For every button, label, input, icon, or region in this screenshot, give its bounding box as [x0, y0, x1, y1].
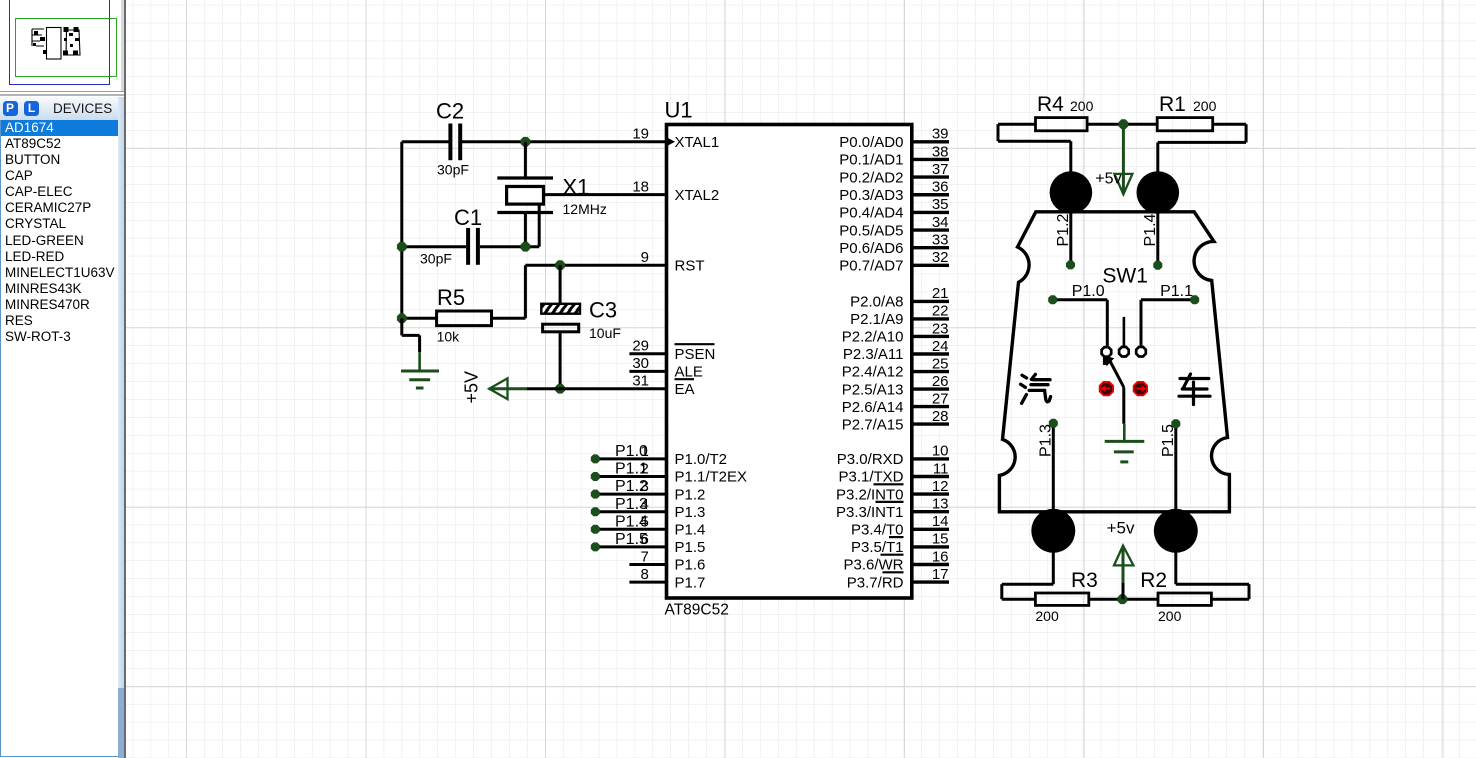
svg-text:P2.3/A11: P2.3/A11 [843, 346, 904, 363]
pin 34 P0.5/AD5 [912, 228, 949, 231]
pin 29 PSEN [629, 352, 666, 355]
preview pane [0, 0, 119, 90]
text 车 (drawn strokes) [1179, 374, 1210, 405]
motor M2 (top-right wheel) [1137, 171, 1180, 214]
svg-text:31: 31 [632, 373, 649, 390]
svg-text:XTAL2: XTAL2 [675, 187, 720, 204]
wire P1.3 [1052, 423, 1055, 584]
node: +5v top junction [1119, 119, 1129, 129]
svg-text:200: 200 [1035, 608, 1059, 624]
power terminal +5v (top, arrow down) [1122, 124, 1125, 194]
svg-text:P2.5/A13: P2.5/A13 [842, 381, 904, 398]
pin 24 P2.3/A11 [912, 352, 949, 355]
svg-text:16: 16 [932, 548, 949, 565]
EA overline [675, 378, 695, 380]
node: C2/X1/XTAL1 junction [521, 137, 531, 147]
node: RST/C3 junction [555, 260, 565, 270]
svg-text:R1: R1 [1159, 93, 1186, 116]
power terminal +5V (EA line) [527, 387, 668, 390]
wire net P1.0 [595, 457, 666, 460]
svg-text:P2.6/A14: P2.6/A14 [842, 399, 904, 416]
node P1.4 dangling end [591, 525, 600, 534]
pin 12 P3.2/INT0 [912, 492, 949, 495]
wire: RST net [525, 264, 667, 267]
svg-text:SW1: SW1 [1102, 265, 1148, 288]
pin 11 P3.1/TXD [912, 475, 949, 478]
pin 26 P2.5/A13 [912, 387, 949, 390]
pin 32 P0.7/AD7 [912, 264, 949, 267]
wire P1.1 [1141, 298, 1195, 301]
node P1.5 dangling end [591, 542, 600, 551]
svg-text:12: 12 [932, 478, 949, 495]
wire net P1.4 [595, 528, 666, 531]
svg-text:P1.0: P1.0 [1072, 283, 1105, 300]
DEVICES header [0, 97, 118, 120]
svg-text:C3: C3 [589, 298, 617, 323]
svg-text:38: 38 [932, 143, 949, 160]
svg-text:P2.1/A9: P2.1/A9 [850, 311, 903, 328]
text 汽 (drawn strokes) [1021, 374, 1051, 403]
svg-text:P0.7/AD7: P0.7/AD7 [839, 258, 903, 275]
pin 22 P2.1/A9 [912, 317, 949, 320]
svg-text:P1.4: P1.4 [675, 522, 706, 539]
svg-text:200: 200 [1193, 98, 1217, 114]
switch pole wire [1122, 387, 1125, 424]
node P1.4 [1153, 261, 1162, 270]
svg-text:P0.6/AD6: P0.6/AD6 [839, 240, 903, 257]
svg-text:P3.1/TXD: P3.1/TXD [838, 469, 903, 486]
svg-text:+5V: +5V [462, 371, 482, 404]
pin 23 P2.2/A10 [912, 335, 949, 338]
svg-text:P1.1: P1.1 [1160, 283, 1193, 300]
svg-text:13: 13 [932, 496, 949, 513]
wire: XTAL1 net horizontal [402, 140, 449, 143]
svg-text:25: 25 [932, 355, 949, 372]
svg-text:PSEN: PSEN [675, 346, 716, 363]
svg-text:R5: R5 [437, 285, 465, 310]
svg-text:P2.4/A12: P2.4/A12 [842, 364, 904, 381]
pin 36 P0.3/AD3 [912, 193, 949, 196]
svg-text:EA: EA [675, 381, 695, 398]
node: R5/ground junction [397, 313, 407, 323]
mini preview sketch [32, 28, 80, 60]
svg-text:XTAL1: XTAL1 [675, 134, 720, 151]
svg-text:12MHz: 12MHz [563, 201, 607, 217]
svg-text:R2: R2 [1140, 569, 1167, 592]
divider strip [121, 0, 124, 91]
svg-text:P1.2: P1.2 [675, 486, 706, 503]
svg-text:11: 11 [933, 460, 949, 477]
svg-text:26: 26 [932, 373, 949, 390]
pin 17 P3.7/RD [912, 580, 949, 583]
wire XTAL2 vertical (passes behind X1) [538, 195, 541, 247]
PSEN overline [675, 343, 715, 345]
svg-text:14: 14 [932, 513, 949, 530]
device list [0, 120, 119, 757]
node: EA/C3 junction [555, 384, 565, 394]
pin 38 P0.1/AD1 [912, 158, 949, 161]
svg-text:P0.1/AD1: P0.1/AD1 [839, 152, 903, 169]
svg-text:15: 15 [932, 531, 949, 548]
node P1.2 [1066, 260, 1075, 269]
wire net P1.3 [595, 510, 666, 513]
svg-text:P1.3: P1.3 [1038, 424, 1055, 457]
svg-text:P0.2/AD2: P0.2/AD2 [839, 169, 903, 186]
switch wiper [1110, 361, 1124, 387]
node: left/C1 junction [397, 242, 407, 252]
svg-text:32: 32 [932, 249, 949, 266]
svg-text:10uF: 10uF [589, 325, 621, 341]
svg-text:C1: C1 [454, 205, 482, 230]
wire P1.0 [1053, 298, 1108, 301]
pin 21 P2.0/A8 [912, 300, 949, 303]
pin 39 P0.0/AD0 [912, 140, 949, 143]
svg-text:RST: RST [675, 257, 705, 274]
node P1.2 dangling end [591, 490, 600, 499]
wire net P1.5 [595, 545, 666, 548]
svg-text:U1: U1 [665, 98, 693, 123]
svg-text:R3: R3 [1071, 569, 1098, 592]
switch contacts [1102, 347, 1112, 357]
svg-text:39: 39 [932, 126, 949, 143]
pin 35 P0.4/AD4 [912, 211, 949, 214]
svg-text:5: 5 [641, 513, 649, 530]
pin 8 P1.7 [629, 581, 666, 584]
node: X1/XTAL2 junction [521, 242, 531, 252]
node P1.0 dangling end [591, 454, 600, 463]
motor M1 (top-left wheel) [1050, 171, 1093, 214]
wire: C1 net horizontal / XTAL2 [402, 245, 466, 248]
pin 7 P1.6 [629, 563, 666, 566]
svg-text:30: 30 [632, 355, 649, 372]
svg-text:10: 10 [932, 443, 949, 460]
svg-text:4: 4 [641, 496, 649, 513]
svg-text:+5v: +5v [1095, 170, 1121, 187]
pin 27 P2.6/A14 [912, 405, 949, 408]
svg-text:P1.4: P1.4 [1142, 213, 1159, 246]
wire net P1.2 [595, 493, 666, 496]
separator [0, 91, 125, 93]
svg-text:30pF: 30pF [437, 162, 469, 178]
svg-text:7: 7 [641, 548, 649, 565]
resistor R3 [1035, 593, 1088, 605]
svg-text:22: 22 [932, 303, 949, 320]
pin arrow at XTAL1 [667, 137, 676, 146]
svg-text:27: 27 [932, 390, 949, 407]
capacitor C2 [448, 124, 452, 161]
svg-text:P2.2/A10: P2.2/A10 [842, 329, 904, 346]
svg-text:23: 23 [932, 320, 949, 337]
svg-text:P1.0/T2: P1.0/T2 [675, 451, 728, 468]
capacitor C3 (electrolytic) [559, 265, 562, 304]
major grid lines [186, 0, 188, 758]
svg-text:P0.5/AD5: P0.5/AD5 [839, 222, 903, 239]
svg-text:P1.1/T2EX: P1.1/T2EX [675, 469, 748, 486]
svg-text:8: 8 [641, 566, 649, 583]
svg-text:P2.0/A8: P2.0/A8 [850, 294, 903, 311]
svg-text:P0.0/AD0: P0.0/AD0 [839, 134, 903, 151]
svg-text:P3.2/INT0: P3.2/INT0 [836, 486, 904, 503]
svg-text:30pF: 30pF [420, 251, 452, 267]
pin 33 P0.6/AD6 [912, 246, 949, 249]
svg-text:34: 34 [932, 214, 949, 231]
car body outline [999, 212, 1229, 512]
svg-text:P1.5: P1.5 [675, 539, 706, 556]
svg-text:AT89C52: AT89C52 [665, 602, 729, 619]
svg-text:3: 3 [641, 478, 649, 495]
motor M3 (bottom-left wheel) [1031, 509, 1075, 553]
svg-text:P1.7: P1.7 [675, 574, 706, 591]
svg-text:200: 200 [1070, 98, 1094, 114]
ground (reset circuit) [400, 318, 403, 335]
svg-text:36: 36 [932, 179, 949, 196]
wire: bottom rail through R3/R2 [1002, 583, 1054, 586]
ground (switch) [1123, 424, 1126, 442]
svg-text:P1.6: P1.6 [675, 557, 706, 574]
svg-text:+5v: +5v [1107, 519, 1135, 538]
switch actuator left (red) [1100, 382, 1113, 395]
resistor R5 [437, 311, 492, 326]
svg-text:P3.3/INT1: P3.3/INT1 [836, 504, 904, 521]
pin 37 P0.2/AD2 [912, 175, 949, 178]
pin 13 P3.3/INT1 [912, 510, 949, 513]
svg-text:29: 29 [632, 338, 649, 355]
svg-text:6: 6 [641, 531, 649, 548]
capacitor C1 [466, 228, 470, 265]
motor M4 (bottom-right wheel) [1154, 509, 1198, 553]
svg-text:24: 24 [932, 338, 949, 355]
svg-text:200: 200 [1158, 608, 1182, 624]
svg-text:1: 1 [641, 443, 649, 460]
svg-text:P3.5/T1: P3.5/T1 [851, 539, 904, 556]
resistor R4 [1036, 118, 1088, 131]
wire: C2 net left vertical [400, 142, 403, 318]
pin 14 P3.4/T0 [912, 528, 949, 531]
svg-text:X1: X1 [563, 175, 590, 200]
wire P1.5 [1174, 424, 1177, 585]
pin 28 P2.7/A15 [912, 422, 949, 425]
svg-text:P3.6/WR: P3.6/WR [843, 557, 903, 574]
svg-text:28: 28 [932, 408, 949, 425]
svg-text:P0.4/AD4: P0.4/AD4 [839, 205, 903, 222]
svg-text:C2: C2 [436, 99, 464, 124]
pin 15 P3.5/T1 [912, 545, 949, 548]
node: +5v bottom junction [1118, 594, 1128, 604]
node P1.1 dangling end [591, 472, 600, 481]
svg-text:18: 18 [632, 178, 649, 195]
svg-text:10k: 10k [437, 328, 461, 344]
pin 10 P3.0/RXD [912, 457, 949, 460]
svg-text:35: 35 [932, 196, 949, 213]
IC U1 AT89C52 body [667, 125, 912, 599]
pin 16 P3.6/WR [912, 563, 949, 566]
wire net P1.1 [595, 475, 666, 478]
power terminal +5v (bottom, arrow up) [1122, 546, 1125, 584]
svg-text:P0.3/AD3: P0.3/AD3 [839, 187, 903, 204]
svg-text:R4: R4 [1037, 93, 1064, 116]
svg-text:9: 9 [641, 249, 649, 266]
svg-text:ALE: ALE [675, 364, 703, 381]
switch middle contact stub [1123, 317, 1126, 346]
pin 30 ALE [629, 370, 666, 373]
svg-text:2: 2 [641, 461, 649, 478]
svg-text:P3.4/T0: P3.4/T0 [851, 522, 904, 539]
svg-text:P1.2: P1.2 [1055, 213, 1072, 246]
svg-text:19: 19 [632, 126, 649, 143]
svg-text:P3.0/RXD: P3.0/RXD [837, 451, 904, 468]
svg-text:33: 33 [932, 232, 949, 249]
resistor R1 [1157, 118, 1213, 131]
resistor R2 [1158, 593, 1211, 605]
svg-text:P3.7/RD: P3.7/RD [847, 574, 904, 591]
pin 25 P2.4/A12 [912, 370, 949, 373]
svg-text:P2.7/A15: P2.7/A15 [842, 416, 904, 433]
node P1.3 dangling end [591, 507, 600, 516]
wire: +5v top rail through R4/R1 [998, 123, 1036, 126]
svg-text:37: 37 [932, 161, 949, 178]
svg-text:17: 17 [932, 566, 949, 583]
crystal X1 [497, 176, 553, 179]
svg-text:21: 21 [932, 285, 949, 302]
svg-text:P1.3: P1.3 [675, 504, 706, 521]
switch actuator right (red) [1134, 382, 1147, 395]
svg-text:P1.5: P1.5 [1160, 424, 1177, 457]
